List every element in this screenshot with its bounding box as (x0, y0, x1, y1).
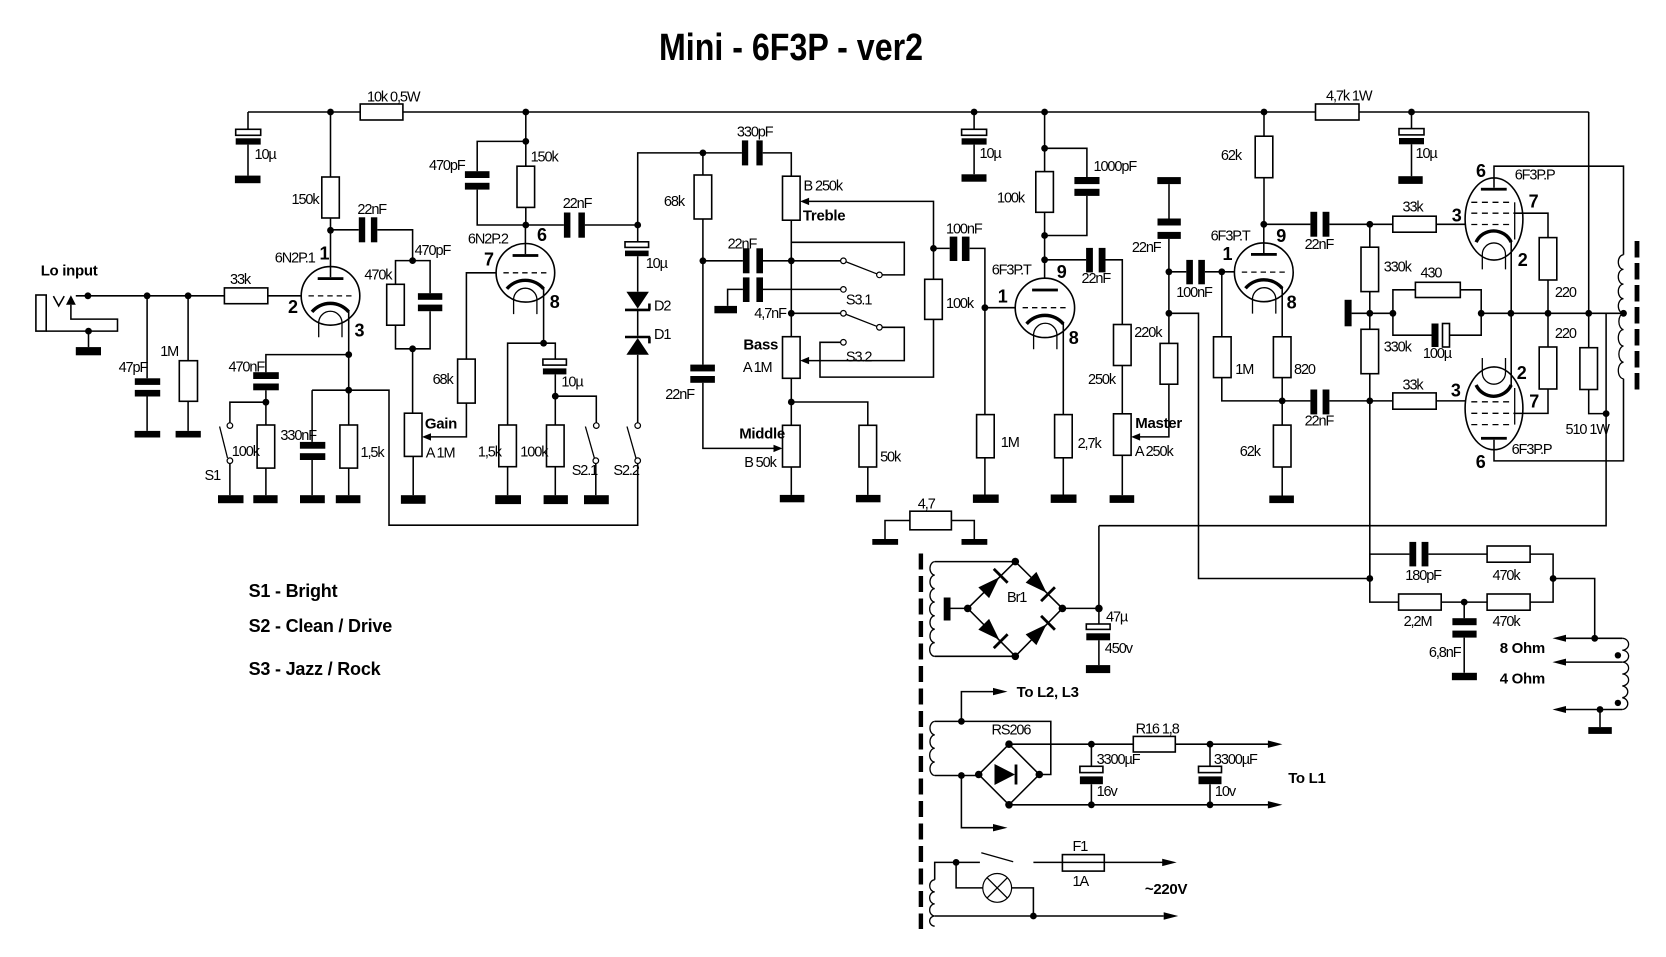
tube 6F3P.P bottom grid g3 (1471, 424, 1513, 426)
transformer OT secondary (1622, 638, 1628, 709)
wire 220 bottom to rail (1547, 313, 1549, 347)
arrow tap common (1553, 706, 1567, 713)
ground 10u C (1398, 176, 1422, 184)
capacitor 470nF (253, 372, 279, 379)
svg-text:To L2, L3: To L2, L3 (1017, 684, 1079, 701)
wire S3.2 lower contact to 100k (820, 319, 934, 377)
wire grid V4 to 1M (1221, 272, 1223, 337)
svg-text:1: 1 (998, 287, 1008, 307)
tube 6F3P.P top envelope (1465, 178, 1523, 260)
resistor 470k (387, 284, 405, 325)
svg-text:To L1: To L1 (1288, 770, 1325, 787)
svg-text:16v: 16v (1097, 784, 1119, 800)
wire RS206 plus row (1009, 743, 1269, 745)
svg-text:22nF: 22nF (1305, 414, 1335, 430)
node 510 bottom (1603, 410, 1610, 417)
wire 150k stage2 bottom (525, 207, 527, 225)
svg-text:B 250k: B 250k (804, 179, 844, 195)
resistor 33k upper (1393, 216, 1436, 232)
node 470k bottom (409, 345, 416, 352)
capacitor 22nF stage2 leads (526, 224, 638, 226)
ground 47pF (135, 431, 161, 438)
switch S1 lever (220, 427, 228, 459)
wire tap 4 ohm (1565, 661, 1622, 663)
ground 1M input (176, 431, 201, 438)
node 22nF out / 470k top (409, 257, 416, 264)
svg-text:D1: D1 (654, 327, 671, 343)
svg-text:7: 7 (484, 250, 494, 270)
svg-text:Lo input: Lo input (41, 263, 98, 280)
switch S3.2 contact right (877, 325, 883, 331)
svg-text:1M: 1M (160, 344, 178, 360)
capacitor 3300uF 16v stem (1090, 744, 1092, 805)
svg-text:S2 - Clean / Drive: S2 - Clean / Drive (249, 616, 393, 636)
switch S1 contact bottom (227, 458, 233, 464)
capacitor 22nF stage2 (564, 213, 571, 238)
transformer OT core (1635, 241, 1640, 395)
svg-text:250k: 250k (1088, 372, 1117, 388)
wire 2,7k to ground (1062, 458, 1064, 495)
transformer PT core (919, 554, 923, 930)
tube 6F3P.P top grid g3 (1471, 201, 1513, 203)
node rail/150k stage2 (522, 109, 529, 116)
svg-text:68k: 68k (433, 372, 455, 388)
node anode V4 (1260, 221, 1267, 228)
capacitor 22nF PI bottom leads (1282, 400, 1370, 402)
ground bar bias (1345, 300, 1352, 327)
resistor 50k (859, 425, 877, 467)
wire lamp to neutral (1012, 888, 1034, 916)
node Br1 right (1059, 605, 1067, 613)
transformer PT mains winding (930, 880, 935, 926)
wire 150k stage1 leads (330, 112, 332, 230)
svg-text:1: 1 (1223, 244, 1233, 264)
switch S2.2 lever (627, 427, 636, 459)
node B+ drop (1585, 310, 1592, 317)
svg-text:6N2P.1: 6N2P.1 (275, 251, 316, 267)
svg-text:10v: 10v (1215, 784, 1237, 800)
wire cathode bus y390 (312, 390, 638, 525)
svg-text:8 Ohm: 8 Ohm (1500, 640, 1545, 657)
svg-text:450v: 450v (1105, 641, 1134, 657)
svg-text:1: 1 (320, 244, 330, 264)
wire HV winding top (935, 561, 1016, 563)
wire speaker ground stem (1599, 710, 1601, 728)
resistor 820 (1273, 337, 1291, 378)
wire 330nF stem (311, 390, 313, 442)
capacitor 10u filter B stem (973, 112, 975, 174)
wire anode bottom pentode to OT (1494, 379, 1624, 461)
node 470nF/S1/100k (263, 399, 270, 406)
resistor 100k stage2 (547, 425, 565, 467)
tube 6N2P.1 heater (319, 311, 342, 337)
capacitor 10u clipper (625, 242, 649, 248)
wire: B+ top rail (248, 111, 1589, 113)
input jack tip arrow (66, 295, 76, 305)
node rail/150k stage1 (327, 109, 334, 116)
svg-text:S1: S1 (205, 468, 222, 484)
node 100k tone top (930, 245, 937, 252)
svg-text:2: 2 (1518, 250, 1528, 270)
wire 62k tail to ground (1281, 467, 1283, 496)
capacitor 4,7nF (743, 277, 750, 302)
node 10u/100k/S2.1 (552, 393, 559, 400)
wire 50k top (791, 402, 868, 425)
node 22nF top / 330k (1366, 221, 1373, 228)
svg-text:8: 8 (550, 292, 560, 312)
wire lamp feed (956, 862, 983, 888)
svg-text:50k: 50k (880, 450, 902, 466)
svg-text:6F3P.P: 6F3P.P (1515, 168, 1555, 184)
wire D1 to S2.2 (637, 355, 639, 423)
ground 10u B (962, 174, 987, 181)
svg-text:Bass: Bass (743, 337, 778, 354)
node 47pF tap (144, 292, 151, 299)
diode D1 (625, 337, 650, 343)
switch S3.1 lever (846, 262, 877, 274)
wire NFB left drop (1369, 401, 1371, 579)
wire cathode V2 to 10u (544, 343, 556, 359)
wire 470pF stage2 top (477, 141, 526, 171)
svg-text:150k: 150k (292, 192, 321, 208)
resistor 1M grid V3 (977, 415, 995, 458)
tube 6F3P.T-1 envelope (1015, 278, 1074, 337)
svg-text:10µ: 10µ (646, 256, 669, 272)
wire NFB bottom branch (1370, 579, 1553, 603)
node 3300u2 top (1207, 741, 1214, 748)
capacitor 10u filter C (1399, 129, 1424, 135)
wire 33k to grid V1a (268, 295, 301, 297)
capacitor 22nF mid (690, 365, 715, 372)
wire 62k to anode V4 (1263, 178, 1265, 225)
svg-text:220k: 220k (1134, 325, 1163, 341)
ground bar 22nF hang (1157, 177, 1181, 184)
wire 220k top chain (1168, 239, 1170, 344)
resistor 68k grid V2 (458, 359, 476, 403)
resistor 100k tone (925, 279, 943, 319)
svg-text:A 250k: A 250k (1135, 444, 1175, 460)
resistor 220k (1160, 343, 1178, 384)
svg-text:1,5k: 1,5k (361, 445, 386, 461)
wire clipper node to tone stack (638, 153, 703, 225)
node 430 left (1390, 310, 1397, 317)
potentiometer Treble wiper arrow (800, 198, 809, 205)
svg-text:330k: 330k (1384, 260, 1413, 276)
resistor 4,7 ground link (910, 511, 952, 530)
wire tap common (1565, 709, 1622, 711)
wire anode lead V2 (524, 227, 526, 254)
resistor 1,5k stage2 (499, 425, 517, 467)
resistor 1,5k stage1 (340, 425, 358, 468)
resistor 510 1W leads (1589, 313, 1606, 413)
capacitor 47u stem (1098, 608, 1100, 665)
wire heater bottom (935, 775, 979, 777)
node mains switch (953, 859, 960, 866)
capacitor 100nF PI leads (1169, 271, 1235, 273)
wire 1,5k stage2 ground lead (507, 467, 509, 496)
ground 10u A (235, 176, 261, 184)
node clipper top (634, 222, 641, 229)
svg-text:2: 2 (288, 297, 298, 317)
resistor 250k (1114, 325, 1132, 366)
resistor 33k lower (1393, 393, 1436, 409)
switch S2.1 contact bottom (593, 458, 599, 464)
wire 330k upper leads (1369, 224, 1371, 313)
wire B+ riser from bridge (1098, 526, 1100, 609)
polarity dot secondary bottom (1615, 700, 1621, 706)
tube 6F3P.T-2 grid (1242, 271, 1286, 273)
node 100nF PI left (1166, 268, 1173, 275)
svg-text:D2: D2 (654, 299, 671, 315)
wire node to Gain pot (412, 349, 414, 413)
tube 6F3P.P top grid g1 (1471, 224, 1513, 226)
wire Br1 output (1062, 607, 1099, 609)
capacitor 22nF V3 out (1086, 248, 1093, 273)
wire 1000pF loop bottom (1045, 196, 1087, 236)
wire rail to 62k PI (1263, 112, 1265, 136)
resistor 250k leads (1121, 366, 1123, 414)
resistor 62k tail (1273, 425, 1291, 467)
potentiometer Master wiper arrow (1131, 433, 1140, 440)
resistor 33k upper leads (1370, 223, 1472, 225)
svg-text:7: 7 (1529, 192, 1539, 212)
wire input line (76, 295, 225, 297)
node cathode pair (1508, 310, 1515, 317)
node speaker ground tap (1597, 706, 1604, 713)
svg-text:470k: 470k (364, 268, 393, 284)
wire 22nF stage1 leads (331, 230, 413, 261)
node rail 100k plate (1041, 109, 1048, 116)
svg-text:6: 6 (1476, 452, 1486, 472)
resistor 100k plate V3 (1036, 172, 1054, 213)
ground speaker (1588, 727, 1612, 734)
wire bias ground row (1352, 312, 1393, 314)
wire Treble wiper to 100k (809, 201, 934, 248)
fuse F1 (1062, 855, 1104, 872)
svg-text:220: 220 (1555, 326, 1577, 342)
capacitor 22nF hang (1158, 219, 1181, 226)
svg-text:510 1W: 510 1W (1566, 422, 1611, 438)
svg-text:100k: 100k (997, 191, 1026, 207)
tube 6F3P.P bottom heater (1482, 358, 1505, 384)
wire node to S2.1 (555, 396, 596, 423)
wire mains bottom (935, 915, 1164, 917)
tube 6N2P.2 anode (513, 254, 539, 257)
node 470pF branch (522, 138, 529, 145)
wire cathode top pentode (1510, 241, 1512, 313)
node anode V3 (1041, 256, 1048, 263)
tube 6F3P.P top cathode (1476, 231, 1511, 242)
wire Middle bottom to ground (790, 467, 792, 495)
bridge Br1 diamond (968, 562, 1063, 657)
wire cathode V4 (1281, 288, 1283, 337)
svg-text:10µ: 10µ (561, 375, 584, 391)
tube 6N2P.1 envelope (301, 267, 360, 326)
wire node to S1 (230, 402, 266, 423)
svg-text:Treble: Treble (803, 208, 845, 225)
svg-text:6F3P.T: 6F3P.T (992, 263, 1032, 279)
node 3300u1 top (1088, 741, 1095, 748)
svg-text:Master: Master (1135, 415, 1182, 432)
resistor 68k tone (694, 175, 712, 219)
wire gnd bar to 22nF (1168, 184, 1170, 218)
transformer PT HV winding (930, 562, 935, 657)
svg-text:470k: 470k (1493, 614, 1522, 630)
wire screen top pentode (1513, 213, 1548, 237)
capacitor 47pF (135, 378, 160, 385)
svg-text:22nF: 22nF (665, 387, 695, 403)
svg-text:470pF: 470pF (429, 158, 466, 174)
input jack body (36, 295, 46, 331)
transformer OT primary upper (1618, 255, 1623, 313)
wire 470pF par bottom lead (413, 311, 431, 349)
switch S2.2 contact bottom (635, 458, 641, 464)
capacitor 10u filter B (962, 129, 987, 135)
svg-text:9: 9 (1276, 226, 1286, 246)
wire cathode bottom pentode (1510, 313, 1512, 386)
wire 6,8nF stem (1463, 602, 1465, 673)
wire 4,7 left lead (885, 521, 910, 540)
arrow minus out (1268, 801, 1283, 808)
svg-text:1M: 1M (1001, 435, 1019, 451)
transformer OT primary lower (1618, 313, 1623, 378)
svg-text:100k: 100k (946, 296, 975, 312)
tube 6F3P.P bottom grid g1 (1471, 401, 1513, 403)
tube 6N2P.1 grid (309, 295, 352, 297)
potentiometer Bass wiper arrow (800, 357, 809, 364)
wire 1M to ground (984, 458, 986, 495)
node OT center tap (1620, 310, 1627, 317)
svg-text:8: 8 (1069, 328, 1079, 348)
potentiometer Middle wiper arrow (774, 445, 783, 452)
wire NFB riser (1169, 313, 1370, 578)
capacitor 470pF stage2 (465, 171, 490, 178)
node grid V3 (982, 304, 989, 311)
ground jack (76, 347, 101, 355)
svg-text:A 1M: A 1M (426, 446, 455, 462)
arrow plus out (1268, 741, 1283, 748)
resistor 68k tone leads (702, 153, 704, 261)
svg-text:S3.2: S3.2 (846, 350, 872, 366)
ground 2,7k (1051, 495, 1077, 503)
arrow tap 8 ohm (1553, 635, 1567, 642)
ground 100k bright (253, 495, 277, 503)
bridge RS206 diamond (979, 744, 1040, 805)
svg-text:S3 - Jazz / Rock: S3 - Jazz / Rock (249, 659, 382, 679)
svg-text:470pF: 470pF (415, 243, 452, 259)
svg-text:3: 3 (355, 321, 365, 341)
wire 100u loop (1393, 313, 1481, 335)
wire 430 loop (1393, 290, 1481, 314)
node jack sleeve ground (85, 328, 92, 335)
node screen rail (1545, 310, 1552, 317)
ground 47u (1086, 665, 1110, 673)
svg-text:8: 8 (1287, 293, 1297, 313)
wire cathode to 470nF (266, 355, 349, 373)
node RS206 top (1005, 740, 1013, 748)
svg-text:10k 0,5W: 10k 0,5W (367, 90, 421, 106)
capacitor 22nF PI top leads (1264, 223, 1370, 225)
arrow mains neutral (1164, 912, 1179, 919)
potentiometer Gain wiper arrow (422, 433, 431, 440)
diode D2 (626, 292, 649, 309)
resistor R16 1,8 (1133, 736, 1175, 752)
lamp pilot (983, 874, 1012, 903)
tube 6F3P.P top g3 tie (1514, 202, 1516, 239)
resistor 430 (1415, 282, 1460, 297)
svg-text:430: 430 (1421, 266, 1443, 282)
svg-text:2,7k: 2,7k (1078, 436, 1103, 452)
tube 6F3P.P top grid g2 (1471, 212, 1513, 214)
resistor 510 1W (1580, 348, 1598, 390)
node lamp neutral (1030, 913, 1037, 920)
node RS206 bottom (1005, 801, 1013, 809)
ground Middle (780, 495, 805, 502)
wire clipper node to 10u (637, 225, 639, 242)
svg-text:22nF: 22nF (563, 196, 593, 212)
tube 6N2P.2 heater (514, 288, 537, 314)
svg-text:4 Ohm: 4 Ohm (1500, 671, 1545, 688)
transformer PT heater winding (930, 721, 935, 775)
ground 4,7 right (962, 539, 988, 545)
node 22nF tone left (700, 257, 707, 264)
switch S3.2 contact left (841, 311, 847, 317)
svg-text:3: 3 (1452, 206, 1462, 226)
node anode V1a (327, 227, 334, 234)
resistor 33k input (224, 288, 267, 304)
wire anode lead V1a (330, 233, 332, 277)
tube 6N2P.2 grid (503, 272, 547, 274)
node 3300u2 bottom (1207, 801, 1214, 808)
tube 6F3P.P bottom anode (1481, 437, 1507, 440)
wire tap 8 ohm (1565, 637, 1622, 639)
node 47u (1095, 605, 1103, 613)
node cathode rail left (1478, 310, 1485, 317)
potentiometer Gain body (404, 413, 422, 456)
wire anode top pentode to OT (1494, 166, 1624, 255)
svg-text:S3.1: S3.1 (846, 293, 872, 309)
tube 6F3P.P bottom cathode (1476, 385, 1511, 396)
tube 6F3P.P bottom grid g2 (1471, 412, 1513, 414)
resistor 62k PI top (1255, 136, 1273, 178)
node Bass/50k (788, 399, 795, 406)
resistor 100k bright leads (265, 402, 267, 495)
wire 470pF par top lead (413, 261, 431, 294)
arrow heater return (993, 824, 1008, 831)
wire to L2 L3 (961, 692, 993, 722)
tube 6F3P.T-2 anode (1251, 253, 1277, 256)
wire Bass bottom (790, 378, 792, 425)
svg-text:R16 1,8: R16 1,8 (1136, 722, 1180, 738)
svg-text:62k: 62k (1240, 444, 1262, 460)
capacitor 22nF tone (743, 248, 750, 273)
svg-text:1000pF: 1000pF (1094, 159, 1138, 175)
node rail 62k PI (1261, 109, 1268, 116)
wire S3.2 to Bass wiper (809, 327, 904, 360)
svg-text:7: 7 (1529, 392, 1539, 412)
wire Master to ground (1121, 455, 1123, 495)
tube 6F3P.P bottom envelope (1465, 367, 1523, 450)
svg-text:330nF: 330nF (280, 428, 317, 444)
node cathode V2 (540, 340, 547, 347)
svg-text:6: 6 (1476, 161, 1486, 181)
wire 470k top lead (396, 261, 413, 285)
tube 6F3P.T-1 anode (1032, 289, 1058, 292)
svg-text:9: 9 (1057, 262, 1067, 282)
node Br1 top (1012, 558, 1020, 566)
node anode V2 (522, 222, 529, 229)
svg-text:470k: 470k (1493, 568, 1522, 584)
